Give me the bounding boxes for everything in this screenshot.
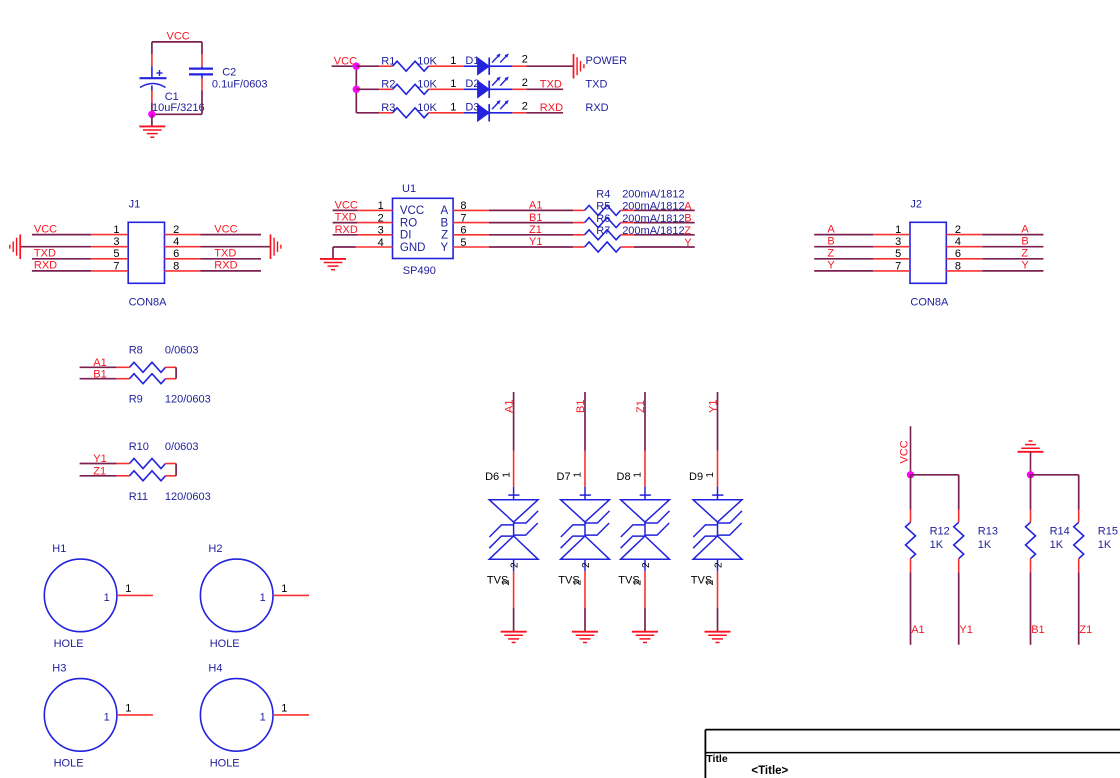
- svg-text:R5: R5: [596, 201, 610, 213]
- pin U1.2: [358, 222, 393, 224]
- wire: [201, 246, 271, 248]
- svg-text:2: 2: [641, 562, 652, 568]
- svg-text:8: 8: [173, 260, 179, 272]
- wire: [201, 90, 203, 114]
- LED lead: [464, 88, 478, 90]
- svg-text:2: 2: [573, 579, 584, 585]
- resistor R14: [1026, 522, 1036, 558]
- svg-text:2: 2: [501, 579, 512, 585]
- svg-text:Z1: Z1: [93, 466, 106, 478]
- svg-text:1K: 1K: [1050, 539, 1064, 551]
- capacitor C2: [189, 67, 213, 79]
- resistor R9: [130, 374, 166, 384]
- svg-text:1: 1: [501, 472, 512, 478]
- title block border: [705, 730, 1120, 778]
- junction: [353, 86, 360, 93]
- ground (D6): [501, 632, 527, 643]
- svg-text:R11: R11: [129, 491, 148, 503]
- pin: [117, 378, 130, 380]
- wire Z1: [644, 392, 646, 451]
- pin H1.1: [117, 594, 153, 596]
- svg-text:SP490: SP490: [403, 265, 436, 277]
- wire: [151, 103, 153, 115]
- wire: [814, 234, 873, 236]
- pin R5.2: [621, 222, 634, 224]
- wire A1: [910, 572, 912, 644]
- svg-text:TXD: TXD: [335, 212, 357, 224]
- pin J2.4: [946, 246, 982, 248]
- svg-text:R4: R4: [596, 188, 610, 200]
- svg-text:R3: R3: [381, 102, 395, 114]
- svg-text:1: 1: [260, 592, 266, 604]
- svg-text:5: 5: [113, 248, 119, 260]
- svg-text:R9: R9: [129, 394, 143, 406]
- wire: [333, 209, 358, 211]
- LED D3: [478, 100, 509, 122]
- svg-text:R7: R7: [596, 225, 610, 237]
- pin J2.1: [873, 234, 910, 236]
- svg-text:Z: Z: [684, 225, 691, 237]
- svg-text:TXD: TXD: [540, 79, 562, 91]
- svg-text:2: 2: [378, 212, 384, 224]
- wire B1: [80, 378, 117, 380]
- wire VCC (R12 top): [910, 426, 912, 475]
- wire: [1031, 474, 1079, 476]
- svg-text:D6: D6: [485, 471, 499, 483]
- wire from cathode: [489, 112, 512, 114]
- pin R14.1: [1030, 510, 1032, 523]
- svg-text:Y1: Y1: [529, 236, 542, 248]
- wire from cathode: [489, 65, 512, 67]
- wire: [1078, 475, 1080, 510]
- resistor R5: [585, 218, 621, 228]
- wire to POWER flag: [526, 65, 573, 67]
- pin R4.1: [573, 209, 585, 211]
- svg-text:120/0603: 120/0603: [165, 491, 211, 503]
- svg-text:Y1: Y1: [959, 624, 972, 636]
- wire: [958, 475, 960, 510]
- pin J1.7: [91, 270, 128, 272]
- svg-text:D8: D8: [617, 471, 631, 483]
- pin D3.2: [512, 112, 526, 114]
- svg-text:GND: GND: [400, 242, 426, 254]
- wire Y1: [489, 246, 573, 248]
- pin: [117, 463, 130, 465]
- wire: [982, 234, 1043, 236]
- power flag (left): [10, 234, 20, 259]
- ground (D7): [572, 632, 598, 643]
- svg-text:R8: R8: [129, 345, 143, 357]
- resistor R15: [1074, 522, 1084, 558]
- svg-text:1: 1: [281, 703, 287, 715]
- op-amp U1 (SP490 transceiver): [393, 198, 454, 258]
- wire: [32, 234, 91, 236]
- pin H4.1: [273, 714, 309, 716]
- wire Z: [634, 234, 695, 236]
- svg-text:Y: Y: [441, 242, 449, 254]
- svg-text:1: 1: [378, 200, 384, 212]
- svg-text:VCC: VCC: [400, 205, 424, 217]
- pin J1.3: [91, 246, 128, 248]
- svg-text:B: B: [684, 213, 691, 225]
- pin R3.2: [429, 112, 442, 114]
- pin J2.2: [946, 234, 982, 236]
- pin C1.2: [151, 91, 153, 103]
- wire: [32, 270, 91, 272]
- svg-text:VCC: VCC: [34, 223, 57, 235]
- svg-text:CON8A: CON8A: [129, 296, 168, 308]
- svg-text:H4: H4: [208, 662, 222, 674]
- svg-text:1: 1: [450, 101, 456, 113]
- svg-text:200mA/1812: 200mA/1812: [622, 213, 684, 225]
- svg-text:2: 2: [581, 562, 592, 568]
- pin R4.2: [621, 209, 634, 211]
- wire to ground: [332, 247, 334, 258]
- pin C2.2: [201, 78, 203, 90]
- svg-text:VCC: VCC: [214, 223, 237, 235]
- svg-text:A1: A1: [529, 200, 542, 212]
- pin C2.1: [201, 54, 203, 67]
- svg-text:Z1: Z1: [529, 224, 542, 236]
- resistor R6: [585, 230, 621, 240]
- svg-text:1: 1: [573, 472, 584, 478]
- pin D1.2: [512, 65, 526, 67]
- pin R1.1: [379, 65, 392, 67]
- wire A1: [80, 366, 117, 368]
- svg-text:5: 5: [895, 248, 901, 260]
- resistor R11: [130, 471, 166, 481]
- wire: [201, 258, 262, 260]
- pin: [166, 366, 177, 368]
- svg-text:POWER: POWER: [586, 55, 628, 67]
- svg-text:A1: A1: [911, 624, 924, 636]
- svg-text:2: 2: [522, 100, 528, 112]
- LED D2: [478, 77, 509, 99]
- svg-text:2: 2: [510, 562, 521, 568]
- wire Z1: [80, 475, 117, 477]
- svg-text:B: B: [441, 217, 449, 229]
- pin U1.3: [358, 234, 393, 236]
- pin R7.2: [621, 246, 634, 248]
- wire: [356, 65, 379, 67]
- svg-text:U1: U1: [402, 183, 416, 195]
- resistor R4: [585, 205, 621, 215]
- wire: [982, 258, 1043, 260]
- mounting hole H2: [200, 559, 273, 632]
- pin U1.4: [356, 246, 393, 248]
- svg-text:HOLE: HOLE: [54, 757, 84, 769]
- pin H2.1: [273, 594, 309, 596]
- wire B1: [489, 222, 573, 224]
- pin D9.1: [717, 451, 719, 487]
- pin J1.5: [91, 258, 128, 260]
- svg-text:B1: B1: [529, 212, 542, 224]
- pin R1.2: [429, 65, 442, 67]
- mounting hole H3: [44, 679, 117, 752]
- svg-text:A: A: [1021, 223, 1029, 235]
- svg-text:8: 8: [955, 260, 961, 272]
- connector J1: [128, 222, 164, 283]
- svg-text:RO: RO: [400, 217, 417, 229]
- pin R6.2: [621, 234, 634, 236]
- wire Y1: [80, 463, 117, 465]
- wire from cathode: [489, 88, 512, 90]
- pin J2.7: [873, 270, 910, 272]
- svg-text:RXD: RXD: [214, 260, 237, 272]
- svg-text:1: 1: [895, 224, 901, 236]
- svg-text:200mA/1812: 200mA/1812: [622, 225, 684, 237]
- svg-text:B1: B1: [575, 400, 587, 413]
- svg-text:Y1: Y1: [93, 453, 106, 465]
- svg-text:Title: Title: [706, 753, 728, 765]
- pin J1.8: [165, 270, 201, 272]
- wire A1: [513, 392, 515, 451]
- wire: [356, 88, 379, 90]
- pin J2.6: [946, 258, 982, 260]
- svg-text:Z: Z: [1021, 248, 1028, 260]
- wire A1: [489, 209, 573, 211]
- svg-text:Z1: Z1: [635, 400, 647, 413]
- wire GND: [333, 246, 356, 248]
- pin R3.1: [379, 112, 392, 114]
- svg-text:B: B: [827, 236, 834, 248]
- svg-text:1: 1: [104, 712, 110, 724]
- svg-text:2: 2: [633, 579, 644, 585]
- LED lead: [464, 65, 478, 67]
- svg-text:Z: Z: [441, 230, 448, 242]
- pin R12.2: [910, 559, 912, 573]
- svg-text:4: 4: [955, 236, 961, 248]
- pin U1.7: [453, 222, 489, 224]
- svg-text:1: 1: [113, 224, 119, 236]
- svg-text:Y: Y: [827, 260, 835, 272]
- junction: [148, 111, 155, 118]
- svg-text:1: 1: [705, 472, 716, 478]
- pin U1.6: [453, 234, 489, 236]
- svg-text:HOLE: HOLE: [54, 638, 84, 650]
- pin J1.2: [165, 234, 201, 236]
- pin D2.2: [512, 88, 526, 90]
- pin: [117, 475, 130, 477]
- svg-text:R13: R13: [978, 525, 998, 537]
- svg-text:VCC: VCC: [899, 440, 911, 463]
- pin R13.2: [958, 559, 960, 573]
- pin D2.1: [442, 88, 464, 90]
- svg-text:200mA/1812: 200mA/1812: [622, 188, 684, 200]
- svg-text:1K: 1K: [1098, 539, 1112, 551]
- pin: [166, 475, 177, 477]
- wire to ground: [151, 114, 153, 126]
- wire from ground: [1030, 452, 1032, 475]
- svg-text:H2: H2: [208, 543, 222, 555]
- svg-text:A: A: [684, 201, 692, 213]
- svg-text:Z: Z: [827, 248, 834, 260]
- svg-text:2: 2: [714, 562, 725, 568]
- svg-text:C2: C2: [222, 67, 236, 79]
- pin R5.1: [573, 222, 585, 224]
- wire: [911, 474, 959, 476]
- pin: [117, 366, 130, 368]
- svg-text:<Title>: <Title>: [751, 765, 788, 777]
- svg-text:R1: R1: [381, 55, 395, 67]
- pin U1.8: [453, 209, 489, 211]
- svg-text:RXD: RXD: [585, 102, 608, 114]
- svg-text:3: 3: [113, 236, 119, 248]
- pin J2.3: [873, 246, 910, 248]
- pin J1.1: [91, 234, 128, 236]
- svg-text:R12: R12: [930, 525, 950, 537]
- pin D7.2: [584, 571, 586, 607]
- svg-text:Z1: Z1: [1079, 624, 1092, 636]
- wire: [814, 246, 873, 248]
- wire B1: [1030, 572, 1032, 644]
- wire A: [634, 209, 695, 211]
- svg-text:6: 6: [173, 248, 179, 260]
- resistor R1: [393, 61, 429, 71]
- svg-text:R14: R14: [1050, 525, 1070, 537]
- pin D9.2: [717, 571, 719, 607]
- wire: [20, 246, 91, 248]
- svg-text:R2: R2: [381, 79, 395, 91]
- wire joining pair: [175, 367, 177, 378]
- svg-text:Y: Y: [1021, 260, 1029, 272]
- pin: [166, 463, 177, 465]
- wire RXD: [526, 112, 563, 114]
- svg-text:0/0603: 0/0603: [165, 345, 199, 357]
- svg-text:1: 1: [260, 712, 266, 724]
- power flag POWER: [574, 54, 584, 79]
- wire Y: [634, 246, 695, 248]
- svg-text:J2: J2: [910, 199, 922, 211]
- svg-text:120/0603: 120/0603: [165, 394, 211, 406]
- svg-text:Y: Y: [684, 237, 692, 249]
- svg-text:10uF/3216: 10uF/3216: [152, 102, 205, 114]
- pin D8.2: [644, 571, 646, 607]
- wire VCC top: [152, 41, 202, 43]
- resistor R10: [130, 459, 166, 469]
- svg-text:TXD: TXD: [214, 248, 236, 260]
- junction: [907, 471, 914, 478]
- svg-text:R15: R15: [1098, 525, 1118, 537]
- LED D1: [478, 53, 509, 75]
- wire: [333, 222, 358, 224]
- capacitor C1: [140, 66, 167, 90]
- wire: [201, 42, 203, 54]
- pin R13.1: [958, 510, 960, 523]
- svg-text:RXD: RXD: [34, 260, 57, 272]
- wire: [151, 42, 153, 54]
- svg-text:7: 7: [895, 260, 901, 272]
- svg-text:3: 3: [895, 236, 901, 248]
- TVS diode D7: [561, 487, 610, 572]
- svg-text:4: 4: [378, 237, 384, 249]
- wire: [356, 112, 379, 114]
- wire VCC vertical: [355, 66, 357, 113]
- svg-text:2: 2: [522, 54, 528, 66]
- resistor R2: [393, 84, 429, 94]
- svg-text:1: 1: [450, 78, 456, 90]
- svg-text:B1: B1: [93, 368, 106, 380]
- svg-text:J1: J1: [129, 199, 141, 211]
- svg-text:VCC: VCC: [335, 199, 358, 211]
- svg-text:RXD: RXD: [335, 224, 358, 236]
- pin: [166, 378, 177, 380]
- wire to ground: [717, 608, 719, 632]
- wire: [32, 258, 91, 260]
- svg-text:Y1: Y1: [707, 400, 719, 413]
- wire: [1030, 475, 1032, 510]
- svg-text:B: B: [1021, 236, 1028, 248]
- resistor R8: [130, 362, 166, 372]
- wire B1: [584, 392, 586, 451]
- svg-text:H1: H1: [52, 543, 66, 555]
- svg-text:VCC: VCC: [167, 31, 190, 43]
- wire to ground: [644, 608, 646, 632]
- svg-text:DI: DI: [400, 230, 412, 242]
- svg-text:1: 1: [125, 703, 131, 715]
- wire: [910, 475, 912, 510]
- svg-text:200mA/1812: 200mA/1812: [622, 201, 684, 213]
- svg-text:RXD: RXD: [540, 102, 563, 114]
- pin R2.2: [429, 88, 442, 90]
- ground (U1 pin 4): [320, 259, 346, 270]
- svg-text:TXD: TXD: [34, 248, 56, 260]
- svg-text:0/0603: 0/0603: [165, 441, 199, 453]
- svg-text:2: 2: [522, 77, 528, 89]
- svg-text:H3: H3: [52, 662, 66, 674]
- wire: [814, 258, 873, 260]
- svg-text:TXD: TXD: [585, 79, 607, 91]
- svg-text:D7: D7: [557, 471, 571, 483]
- wire: [982, 246, 1043, 248]
- svg-text:1: 1: [450, 55, 456, 67]
- svg-text:2: 2: [173, 224, 179, 236]
- wire: [333, 234, 358, 236]
- svg-text:1K: 1K: [978, 539, 992, 551]
- wire Y1: [717, 392, 719, 451]
- pin R15.2: [1078, 559, 1080, 573]
- mounting hole H4: [200, 679, 273, 752]
- svg-text:0.1uF/0603: 0.1uF/0603: [212, 79, 268, 91]
- wire B: [634, 222, 695, 224]
- TVS diode D9: [693, 487, 742, 572]
- svg-text:7: 7: [113, 260, 119, 272]
- connector J2: [910, 222, 946, 283]
- svg-text:1: 1: [104, 592, 110, 604]
- pin U1.5: [453, 246, 489, 248]
- wire VCC stub: [332, 65, 357, 67]
- svg-text:A1: A1: [503, 400, 515, 413]
- svg-text:B1: B1: [1031, 624, 1044, 636]
- svg-text:D9: D9: [689, 471, 703, 483]
- resistor R12: [906, 522, 916, 558]
- pin D1.1: [442, 65, 464, 67]
- ground: [139, 126, 165, 137]
- pin R12.1: [910, 510, 912, 523]
- wire Y1: [958, 572, 960, 644]
- svg-text:1K: 1K: [930, 539, 944, 551]
- pin R14.2: [1030, 559, 1032, 573]
- svg-text:A1: A1: [93, 357, 106, 369]
- pin D6.1: [513, 451, 515, 487]
- svg-text:C1: C1: [165, 91, 179, 103]
- wire: [814, 270, 873, 272]
- TVS diode D6: [489, 487, 538, 572]
- wire: [982, 270, 1043, 272]
- wire Z1: [1078, 572, 1080, 644]
- pin U1.1: [358, 209, 393, 211]
- pin D3.1: [442, 112, 464, 114]
